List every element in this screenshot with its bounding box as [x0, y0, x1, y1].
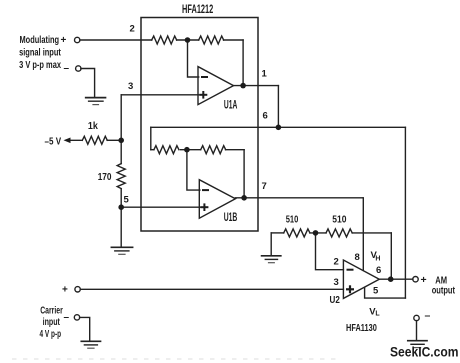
svg-text:6: 6 [376, 265, 381, 276]
svg-text:–: – [425, 310, 431, 322]
svg-text:SeekIC.com: SeekIC.com [390, 345, 459, 360]
svg-text:170: 170 [98, 172, 112, 183]
svg-text:3: 3 [128, 81, 133, 92]
svg-text:input: input [43, 316, 61, 328]
svg-text:5: 5 [373, 285, 379, 296]
svg-text:–: – [64, 63, 70, 74]
svg-text:Modulating: Modulating [20, 34, 60, 46]
svg-text:7: 7 [262, 181, 267, 192]
svg-text:2: 2 [334, 256, 339, 267]
svg-text:output: output [432, 284, 456, 296]
svg-text:1k: 1k [88, 121, 98, 132]
svg-text:U2: U2 [330, 295, 341, 306]
svg-text:2: 2 [130, 23, 135, 34]
svg-text:Carrier: Carrier [40, 305, 63, 317]
svg-text:–: – [64, 312, 70, 323]
svg-text:U1A: U1A [224, 98, 238, 112]
svg-text:–5 V: –5 V [45, 136, 62, 147]
svg-text:5: 5 [124, 194, 130, 205]
svg-text:+: + [62, 284, 68, 295]
svg-text:6: 6 [263, 110, 268, 121]
svg-text:U1B: U1B [224, 210, 238, 224]
svg-text:HFA1130: HFA1130 [346, 322, 377, 334]
svg-text:510: 510 [332, 215, 347, 226]
svg-text:510: 510 [286, 215, 299, 226]
svg-text:4 V p-p: 4 V p-p [40, 328, 62, 340]
svg-text:L: L [375, 311, 380, 318]
svg-text:8: 8 [355, 252, 360, 263]
svg-text:HFA1212: HFA1212 [182, 2, 213, 16]
svg-text:H: H [375, 255, 380, 262]
svg-text:+: + [421, 274, 427, 286]
svg-text:+: + [61, 35, 67, 46]
svg-text:1: 1 [262, 69, 268, 80]
svg-text:3: 3 [334, 277, 339, 288]
svg-text:signal input: signal input [19, 47, 61, 59]
svg-text:3 V p-p max: 3 V p-p max [19, 59, 61, 71]
